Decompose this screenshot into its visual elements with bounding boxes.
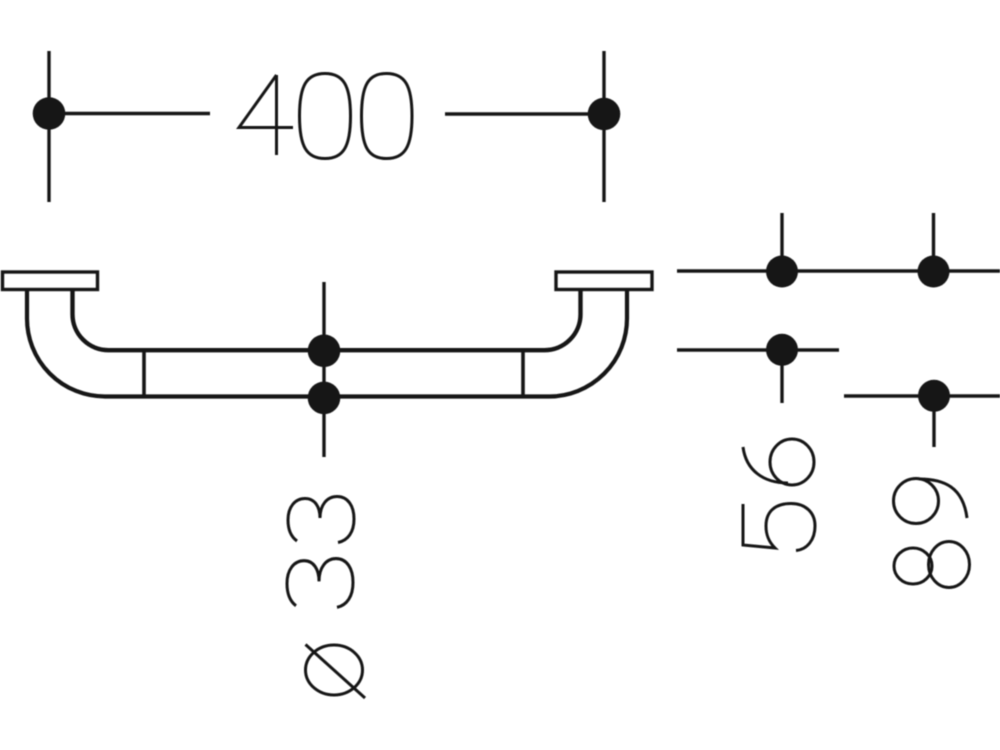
dot B on line 1 (918, 256, 950, 288)
dot A on line 1 (766, 256, 798, 288)
extension above dot A (780, 213, 783, 271)
label 400 : digit 0 (second) (362, 74, 413, 159)
center line through bar (322, 282, 325, 457)
label diameter 33 : diameter symbol (306, 645, 366, 699)
label 56 : digit 5 (rotated) (743, 504, 815, 551)
label diameter 33 : digit 3 (upper, rotated) (288, 497, 354, 543)
right dimension line 3 (89 reference) (844, 394, 1000, 397)
label diameter 33 : digit 3 (lower, rotated) (287, 559, 353, 608)
grab bar inner contour left (72, 290, 580, 350)
dimension line 400 left segment (49, 112, 210, 115)
label 56 : digit 6 (rotated) (743, 439, 814, 485)
right dimension line 1 (wall plane) (677, 269, 1000, 272)
extension line left of 400 dimension (47, 51, 50, 202)
right wall flange (556, 272, 652, 290)
dot C on line 2 (766, 334, 798, 366)
weld seam tick left (142, 351, 146, 397)
dimension dot right (400) (588, 98, 621, 131)
label 89 : digit 9 (rotated) (894, 479, 968, 524)
dot on bar bottom line (308, 382, 341, 415)
label 400 : digit 0 (first) (300, 74, 351, 159)
extension above dot B (932, 213, 935, 271)
grab bar outer contour (27, 290, 627, 397)
extension below dot C (780, 350, 783, 403)
extension line right of 400 dimension (602, 51, 605, 202)
dot on bar top line (308, 335, 341, 368)
weld seam tick right (521, 351, 525, 397)
dimension dot left (400) (33, 97, 66, 130)
left wall flange (3, 272, 98, 290)
dimension line 400 right segment (445, 112, 604, 115)
label 89 : digit 8 (rotated) (894, 542, 970, 588)
extension below dot D (932, 396, 935, 447)
right dimension line 2 (56 reference) (677, 348, 839, 351)
dot D on line 3 (918, 380, 950, 412)
label 400 : digit 4 (239, 75, 293, 155)
